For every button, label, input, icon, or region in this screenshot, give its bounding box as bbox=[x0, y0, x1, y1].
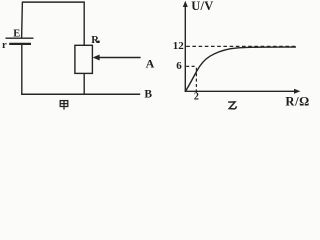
svg-text:U/V: U/V bbox=[191, 0, 213, 13]
curve U(R) bbox=[186, 47, 296, 91]
y-axis arrowhead bbox=[183, 1, 188, 7]
slider arrow (pointer A) shaft bbox=[98, 57, 141, 59]
svg-text:E: E bbox=[13, 28, 20, 39]
wire bottom rail bbox=[21, 93, 140, 95]
svg-text:R/Ω: R/Ω bbox=[285, 94, 309, 108]
battery short plate (internal resistance r) bbox=[9, 43, 31, 45]
figure label 甲 bbox=[60, 101, 68, 110]
svg-text:6: 6 bbox=[176, 60, 182, 72]
x-axis (R/Ω) bbox=[185, 90, 298, 92]
slider arrow head bbox=[93, 55, 100, 61]
dashed asymptote U=12 bbox=[186, 45, 298, 47]
svg-text:A: A bbox=[146, 57, 155, 71]
battery E long plate bbox=[6, 37, 34, 39]
svg-text:2: 2 bbox=[194, 92, 199, 103]
svg-text:B: B bbox=[144, 88, 152, 100]
y-axis (U/V) bbox=[184, 4, 186, 92]
label R subscript dot bbox=[97, 41, 99, 43]
wire right vertical upper bbox=[83, 2, 85, 46]
svg-text:r: r bbox=[2, 40, 7, 51]
dashed guide R=2 vertical bbox=[195, 68, 197, 91]
figure label 乙 bbox=[228, 102, 236, 109]
x-axis arrowhead bbox=[294, 89, 300, 94]
dashed guide U=6 bbox=[186, 65, 197, 67]
tick at R=2 bbox=[195, 90, 197, 92]
wire right vertical lower bbox=[83, 73, 85, 94]
resistor R (rheostat box) bbox=[75, 45, 93, 73]
svg-text:R: R bbox=[91, 35, 99, 46]
wire top rail bbox=[22, 1, 85, 3]
svg-text:12: 12 bbox=[173, 40, 185, 52]
wire left vertical upper (battery top lead) bbox=[21, 2, 24, 38]
wire left vertical lower bbox=[21, 44, 23, 95]
